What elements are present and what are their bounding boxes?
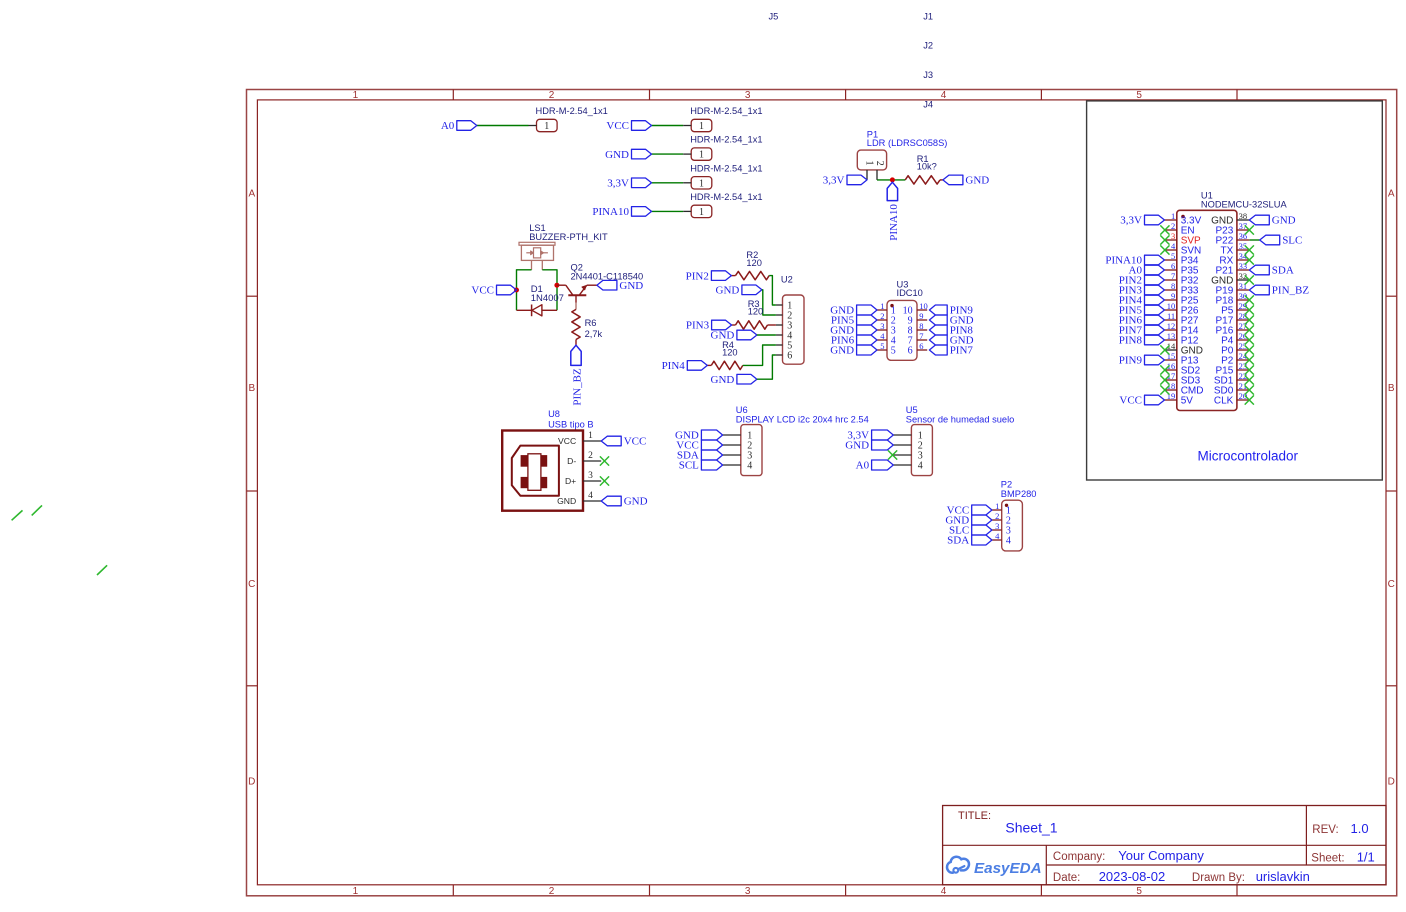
pins of U8 [583,431,601,501]
net flag 3,3V (U1 pin 1) [1120,215,1164,227]
wire [652,210,684,212]
svg-text:D: D [248,777,255,788]
svg-text:U6: U6 [736,405,748,415]
svg-text:GND: GND [711,374,735,386]
svg-text:SDA: SDA [947,535,969,547]
resistor R6 2,7k [572,309,603,345]
stray wire segment 3 [97,565,107,575]
pin 1 of J5 [529,125,537,127]
net flag 3,3V (P1) [823,175,867,187]
no-connect X [888,450,897,459]
net flag GND (U3 pin 5) [830,345,877,357]
U1 left no-connect marks [1160,225,1169,394]
svg-text:C: C [1388,579,1395,590]
svg-text:4: 4 [941,886,947,897]
net flag A0 [441,120,477,132]
svg-text:2,7k: 2,7k [585,329,603,339]
svg-text:VCC: VCC [471,285,494,297]
pin 1 of P1 [866,170,868,180]
svg-text:HDR-M-2.54_1x1: HDR-M-2.54_1x1 [690,106,762,116]
connector U8 USB tipo B [502,409,593,511]
pins of P2 [992,501,1002,541]
svg-text:D+: D+ [565,476,576,486]
net flag SCL (U6 pin 4) [679,460,723,472]
svg-text:2: 2 [549,90,555,101]
svg-text:VCC: VCC [558,436,576,446]
svg-text:5: 5 [1136,886,1142,897]
svg-text:SDA: SDA [1272,265,1294,277]
net flag PIN5 (U3 pin 2) [831,315,877,327]
net flag 3,3V [607,178,651,190]
net flag SDA (P2 pin 4) [947,535,992,547]
junction dot [554,283,559,288]
no-connect X [600,456,609,465]
svg-text:3: 3 [745,886,751,897]
svg-text:PIN7: PIN7 [950,345,974,357]
wire [757,334,776,336]
svg-text:GND: GND [619,280,643,292]
frame row labels right [1388,189,1395,788]
wire [762,290,776,315]
svg-text:120: 120 [722,347,738,357]
svg-text:EasyEDA: EasyEDA [974,860,1042,877]
date and author text [1053,869,1310,884]
frame column ticks bottom [453,885,1237,896]
svg-text:VCC: VCC [1119,395,1142,407]
svg-text:D: D [1388,777,1395,788]
net flag VCC (U1 pin 19) [1119,395,1164,407]
microcontroller U1 NODEMCU-32SLUA [1177,191,1288,411]
net flag PIN6 (U3 pin 4) [831,335,877,347]
frame column ticks top [453,90,1237,100]
svg-text:urislavkin: urislavkin [1256,869,1310,884]
svg-text:1: 1 [699,121,704,132]
svg-text:PIN_BZ: PIN_BZ [1272,285,1310,297]
svg-text:VCC: VCC [606,120,629,132]
svg-text:5V: 5V [1181,396,1194,407]
net flag GND (U3 pin 3) [830,325,877,337]
svg-text:3: 3 [995,521,999,531]
net flag GND (U3 pin 7) [929,335,973,347]
net flag GND (U3 pin 1) [830,305,877,317]
svg-text:120: 120 [748,307,764,317]
net flag PIN7 (U1 pin 12) [1119,325,1165,337]
svg-text:5: 5 [1136,90,1142,101]
svg-text:16: 16 [1167,361,1176,371]
svg-text:2: 2 [549,886,555,897]
net flag PIN5 (U1 pin 10) [1119,305,1165,317]
pin 2 of P1 [876,170,878,180]
net flag VCC (U8) [601,436,646,448]
net flag SLC (P2 pin 3) [949,525,992,537]
frame row labels left [248,189,255,788]
pins of U3 left [877,301,887,351]
svg-text:7: 7 [1171,271,1175,281]
resistor R4 120 [707,340,743,370]
net flag A0 (U5) [856,460,894,472]
header J1 HDR-M-2.54_1x1 [690,106,762,132]
svg-text:GND: GND [557,496,576,506]
svg-text:3,3V: 3,3V [607,178,629,190]
wire [652,125,684,127]
net flag PINA10 [592,206,651,218]
net flag GND (P2 pin 2) [945,515,992,527]
svg-text:4: 4 [918,461,923,472]
net flag GND (U1 pin 38) [1249,215,1295,227]
svg-text:36: 36 [1239,231,1248,241]
pins of U5 [893,435,911,465]
net flag VCC (U6 pin 2) [676,440,722,452]
svg-text:3: 3 [880,321,884,331]
svg-text:J1: J1 [923,12,933,22]
net flag GND (U2 pin4) [711,330,757,342]
svg-text:1: 1 [880,301,884,311]
net flag 3,3V (U5) [847,430,893,442]
svg-text:13: 13 [1167,331,1176,341]
svg-text:GND: GND [830,345,854,357]
frame column labels bottom [353,886,1143,897]
title block [943,806,1386,885]
pins of U3 right [917,301,928,351]
svg-text:2: 2 [874,161,885,166]
connector U5 Sensor de humedad suelo [906,405,1015,476]
svg-text:NODEMCU-32SLUA: NODEMCU-32SLUA [1201,200,1288,210]
svg-text:J5: J5 [769,12,779,22]
net flag SDA (U6 pin 3) [677,450,723,462]
svg-text:12: 12 [1167,321,1176,331]
svg-text:PIN8: PIN8 [1119,335,1143,347]
svg-text:B: B [248,383,255,394]
net flag PIN8 (U3 pin 8) [929,325,973,337]
wire [542,270,557,311]
svg-text:Your Company: Your Company [1118,848,1204,863]
company text [1053,848,1204,863]
svg-text:Sheet:: Sheet: [1311,852,1344,864]
connector P2 BMP280 [1001,480,1037,551]
net flag SDA (U1 pin 33) [1249,265,1294,277]
net flag VCC (buzzer) [471,285,516,297]
svg-text:38: 38 [1239,211,1248,221]
svg-text:6: 6 [787,351,792,362]
net flag PIN2 (U1 pin 7) [1119,275,1165,287]
svg-text:1: 1 [353,90,359,101]
svg-text:GND: GND [965,175,989,187]
svg-text:10: 10 [1167,301,1176,311]
net flag PIN8 (U1 pin 13) [1119,335,1165,347]
net flag GND (U5) [845,440,893,452]
net flag GND (U2 pin2) [716,285,762,297]
no-connect X [600,476,609,485]
svg-text:REV:: REV: [1312,824,1338,836]
resistor R1 10k? [905,154,943,184]
svg-text:DISPLAY LCD i2c 20x4 hrc 2.54: DISPLAY LCD i2c 20x4 hrc 2.54 [736,415,869,425]
pin 1 of J4 [683,210,691,212]
svg-text:D-: D- [567,456,576,466]
svg-text:PINA10: PINA10 [888,204,900,241]
svg-text:CLK: CLK [1214,396,1234,407]
net flag PIN9 (U3 pin 10) [929,305,973,317]
svg-text:U5: U5 [906,405,918,415]
header J3 HDR-M-2.54_1x1 [690,163,762,189]
frame row ticks right [1386,296,1397,686]
svg-text:5: 5 [1171,251,1175,261]
svg-text:PIN_BZ: PIN_BZ [571,368,583,406]
svg-text:A0: A0 [441,120,455,132]
svg-text:9: 9 [919,311,923,321]
net flag SLC (U1 pin 36) [1260,235,1303,247]
svg-text:3,3V: 3,3V [1120,215,1142,227]
header J2 HDR-M-2.54_1x1 [690,135,762,161]
svg-text:4: 4 [588,491,593,501]
svg-text:LDR (LDRSC058S): LDR (LDRSC058S) [867,138,948,148]
net flag PIN3 [686,320,732,332]
svg-text:8: 8 [919,321,923,331]
title text [958,810,1058,835]
wire [477,125,529,127]
pins of U6 [723,435,741,465]
svg-text:Sensor de humedad suelo: Sensor de humedad suelo [906,415,1015,425]
svg-text:2: 2 [1171,221,1175,231]
svg-text:J2: J2 [923,41,933,51]
svg-text:C: C [248,579,255,590]
svg-text:Drawn By:: Drawn By: [1192,872,1245,884]
connector U3 IDC10 [887,280,923,361]
net flag VCC (P2 pin 1) [947,505,992,517]
wire [877,179,905,181]
svg-text:PIN2: PIN2 [686,270,709,282]
junction dot [890,177,895,182]
net flag PIN4 [662,360,708,372]
svg-text:4: 4 [995,531,1000,541]
svg-text:1: 1 [699,207,704,218]
svg-text:J4: J4 [923,100,933,110]
svg-text:31: 31 [1239,281,1248,291]
EasyEDA logo [947,857,1042,877]
net flag GND (U8) [601,496,647,508]
wire [652,153,684,155]
svg-text:GND: GND [624,496,648,508]
svg-text:2023-08-02: 2023-08-02 [1099,869,1166,884]
svg-text:1/1: 1/1 [1357,849,1375,864]
svg-text:1N4007: 1N4007 [531,293,564,304]
svg-text:4: 4 [941,90,947,101]
svg-text:HDR-M-2.54_1x1: HDR-M-2.54_1x1 [690,163,762,173]
wire [652,182,684,184]
svg-text:6: 6 [908,346,913,357]
connector U2 [781,275,804,365]
svg-text:HDR-M-2.54_1x1: HDR-M-2.54_1x1 [690,192,762,202]
net flag PINA10 [887,182,900,241]
svg-text:IDC10: IDC10 [897,288,923,298]
wire [517,270,532,311]
net flag GND (U6 pin 1) [675,430,723,442]
svg-text:GND: GND [1272,215,1296,227]
svg-text:1: 1 [1171,211,1175,221]
svg-text:Date:: Date: [1053,872,1081,884]
pins of U2 [776,305,783,355]
header J5 HDR-M-2.54_1x1 [536,106,608,132]
svg-text:2: 2 [588,451,593,461]
photoresistor P1 LDR (LDRSC058S) [857,130,947,180]
svg-text:1: 1 [588,431,593,441]
svg-text:SCL: SCL [679,460,699,472]
svg-text:11: 11 [1167,311,1175,321]
net flag PIN_BZ [571,345,584,405]
resistor R3 120 [732,299,776,329]
svg-text:10k?: 10k? [917,161,937,171]
svg-text:U8: U8 [548,409,560,419]
svg-text:J3: J3 [923,70,933,80]
svg-text:4: 4 [1006,536,1011,547]
net flag GND (U3 pin 9) [929,315,973,327]
svg-text:6: 6 [919,341,923,351]
svg-text:Microcontrolador: Microcontrolador [1198,449,1299,464]
sheet frame outer border [247,90,1397,896]
pin 1 of J1 [683,125,691,127]
svg-text:3: 3 [745,90,751,101]
net flag PIN4 (U1 pin 9) [1119,295,1165,307]
wire [769,276,776,305]
revision text [1312,821,1368,836]
net flag PIN9 (U1 pin 15) [1119,355,1165,367]
svg-text:1: 1 [995,501,999,511]
svg-text:1: 1 [864,161,875,166]
svg-text:2: 2 [995,511,999,521]
net flag PIN6 (U1 pin 11) [1119,315,1165,327]
svg-text:GND: GND [605,149,629,161]
svg-text:9: 9 [1171,291,1175,301]
U1 right pins 38-20 [1237,211,1249,401]
net flag PINA10 (U1 pin 5) [1105,255,1164,267]
svg-text:GND: GND [716,285,740,297]
resistor R2 120 [731,250,769,280]
stray wire segment 1 [12,510,23,520]
net flag PIN7 (U3 pin 6) [929,345,973,357]
pin 1 of J2 [683,153,691,155]
svg-text:A: A [248,189,255,200]
svg-text:HDR-M-2.54_1x1: HDR-M-2.54_1x1 [536,106,608,116]
svg-text:R6: R6 [585,318,597,328]
net flag GND (R1) [943,175,989,187]
svg-text:5: 5 [880,341,884,351]
svg-text:VCC: VCC [624,436,647,448]
svg-text:3: 3 [1171,231,1175,241]
net flag VCC [606,120,651,132]
svg-text:3,3V: 3,3V [823,175,845,187]
svg-text:33: 33 [1239,261,1248,271]
U1 left pins 1-19 [1165,211,1177,401]
buzzer LS1 BUZZER-PTH_KIT [519,223,608,270]
svg-text:6: 6 [1171,261,1175,271]
frame row ticks left [247,296,258,686]
svg-text:BUZZER-PTH_KIT: BUZZER-PTH_KIT [529,232,608,242]
frame column labels top [353,90,1143,101]
net flag GND [605,149,651,161]
svg-text:PIN3: PIN3 [686,320,710,332]
svg-text:A0: A0 [856,460,870,472]
svg-text:3: 3 [588,471,593,481]
net flag A0 (U1 pin 6) [1129,265,1165,277]
stray wire segment 2 [32,505,42,515]
svg-text:1: 1 [699,150,704,161]
U1 left pin names [1181,216,1204,407]
svg-text:PIN9: PIN9 [1119,355,1143,367]
svg-text:GND: GND [845,440,869,452]
junction dot [514,288,519,293]
svg-text:1: 1 [544,121,549,132]
svg-text:5: 5 [891,346,896,357]
svg-text:2: 2 [880,311,884,321]
svg-text:A: A [1388,189,1395,200]
svg-text:120: 120 [746,258,762,268]
sheet symbol Microcontrolador [1087,101,1383,480]
net flag GND (Q2) [597,280,643,292]
svg-text:TITLE:: TITLE: [958,810,991,822]
U1 right pin names [1211,216,1234,407]
wire [757,355,776,379]
sheet number text [1311,849,1374,864]
net flag PIN_BZ (U1 pin 31) [1249,285,1309,297]
svg-text:7: 7 [919,331,923,341]
wire SLC [1249,239,1259,241]
sheet frame inner border [257,100,1386,885]
net flag PIN3 (U1 pin 8) [1119,285,1165,297]
svg-text:PINA10: PINA10 [592,206,629,218]
wire [743,345,776,365]
svg-text:1: 1 [353,886,359,897]
pin 1 of J3 [683,182,691,184]
svg-text:4: 4 [747,461,752,472]
svg-text:HDR-M-2.54_1x1: HDR-M-2.54_1x1 [690,135,762,145]
transistor Q2 2N4401-C118540 [557,263,643,310]
U1 right no-connect marks [1245,225,1254,404]
svg-text:U2: U2 [781,275,793,285]
svg-text:USB tipo B: USB tipo B [548,420,593,430]
svg-text:Company:: Company: [1053,851,1105,863]
svg-text:PIN4: PIN4 [662,360,686,372]
svg-text:4: 4 [1171,241,1176,251]
connector U6 DISPLAY LCD i2c 20x4 hrc 2.54 [736,405,869,476]
svg-text:1: 1 [699,178,704,189]
net flag PIN2 [686,270,732,282]
header J4 HDR-M-2.54_1x1 [690,192,762,218]
svg-text:10: 10 [919,301,928,311]
svg-text:1.0: 1.0 [1351,821,1369,836]
diode D1 1N4007 [517,284,564,316]
svg-text:SLC: SLC [1282,235,1302,247]
svg-text:8: 8 [1171,281,1175,291]
svg-text:B: B [1388,383,1395,394]
svg-text:Sheet_1: Sheet_1 [1005,819,1057,835]
net flag GND (U2 pin6) [711,374,757,386]
svg-text:BMP280: BMP280 [1001,489,1037,499]
